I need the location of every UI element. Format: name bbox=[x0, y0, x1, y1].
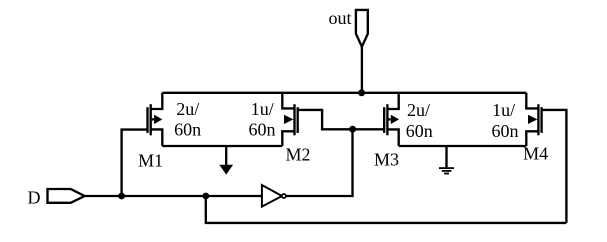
channel bar bbox=[537, 104, 539, 135]
port D bbox=[48, 189, 85, 203]
svg-text:out: out bbox=[328, 8, 351, 28]
source lead bbox=[282, 131, 294, 146]
gate bar bbox=[383, 107, 385, 133]
svg-text:1u/: 1u/ bbox=[492, 100, 515, 120]
source lead bbox=[151, 129, 163, 146]
transistor M4 bbox=[526, 93, 541, 146]
source lead bbox=[387, 129, 398, 146]
bulk arrow bbox=[152, 118, 154, 120]
node D-feedback junction bbox=[202, 193, 209, 200]
svg-text:M3: M3 bbox=[374, 150, 399, 170]
bulk arrow bbox=[284, 115, 293, 124]
svg-text:60n: 60n bbox=[492, 121, 519, 141]
wire top rail VDD net bbox=[162, 92, 526, 94]
bulk arrow bbox=[388, 118, 390, 120]
wire right box bottom bbox=[399, 145, 527, 147]
svg-text:60n: 60n bbox=[406, 121, 433, 141]
gate bar bbox=[297, 107, 299, 133]
channel bar bbox=[150, 104, 152, 135]
transistor M1 bbox=[148, 93, 163, 146]
svg-text:2u/: 2u/ bbox=[176, 99, 199, 119]
node D-M1gate junction bbox=[118, 193, 125, 200]
gate bar bbox=[146, 107, 148, 133]
svg-text:1u/: 1u/ bbox=[251, 99, 274, 119]
node X junction bbox=[349, 126, 356, 133]
wire feedback bottom bbox=[206, 196, 567, 223]
svg-text:D: D bbox=[28, 187, 41, 207]
svg-text:M1: M1 bbox=[138, 151, 163, 171]
wire inverter output to node X bbox=[286, 129, 353, 196]
transistor M2 bbox=[282, 93, 297, 146]
svg-text:60n: 60n bbox=[174, 119, 201, 139]
node out junction bbox=[358, 89, 365, 96]
wire out stem bbox=[361, 47, 363, 93]
svg-text:M2: M2 bbox=[285, 144, 310, 164]
wire M1 gate lead bbox=[122, 130, 148, 196]
gate bar bbox=[540, 107, 542, 133]
drain lead bbox=[387, 93, 398, 109]
port out bbox=[356, 10, 368, 47]
transistor M3 bbox=[384, 93, 399, 146]
drain lead bbox=[282, 93, 294, 109]
drain lead bbox=[151, 93, 163, 109]
wire D net bbox=[85, 195, 262, 197]
inverter U1 bbox=[262, 185, 282, 207]
svg-text:60n: 60n bbox=[249, 119, 276, 139]
wire left box bottom bbox=[162, 145, 282, 147]
bulk arrow bbox=[528, 115, 537, 124]
ground arrow-style left bbox=[225, 146, 227, 165]
ground 3-bar right bbox=[445, 146, 447, 167]
wire M2 gate to node X bbox=[298, 110, 385, 129]
drain lead bbox=[526, 93, 538, 109]
source lead bbox=[526, 131, 538, 146]
svg-text:M4: M4 bbox=[523, 143, 548, 163]
wire M4 gate feedback riser bbox=[542, 110, 567, 223]
channel bar bbox=[293, 104, 295, 135]
channel bar bbox=[386, 104, 388, 135]
svg-text:2u/: 2u/ bbox=[407, 100, 430, 120]
